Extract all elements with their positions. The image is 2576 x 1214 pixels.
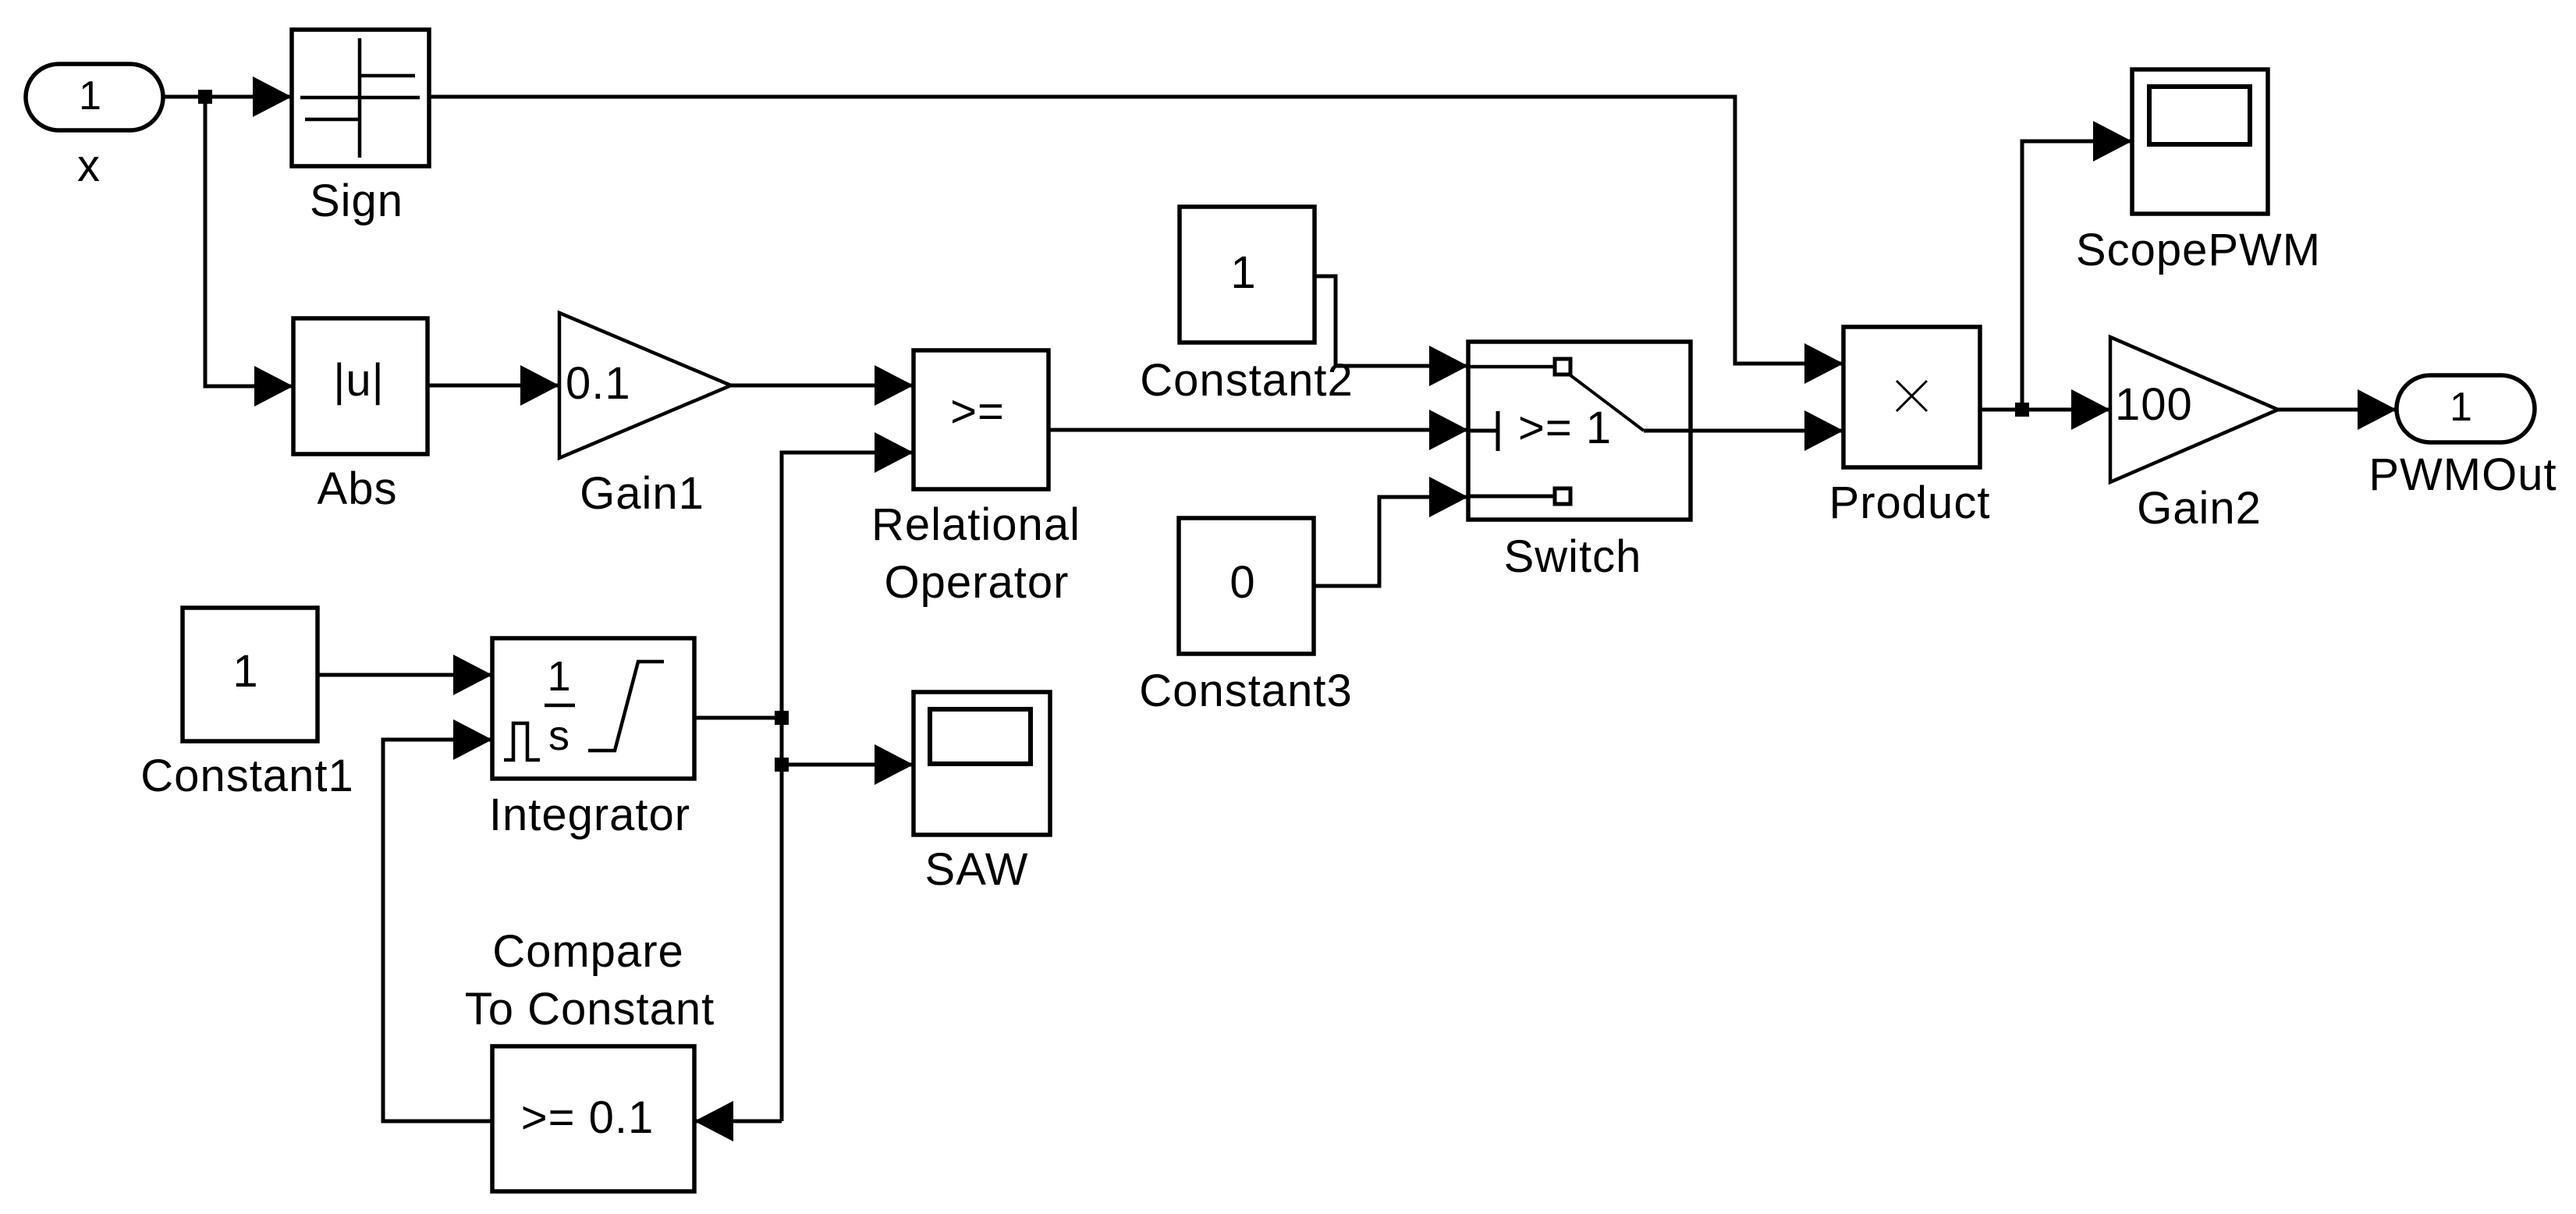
- svg-text:Abs: Abs: [318, 463, 398, 514]
- svg-text:PWMOut: PWMOut: [2368, 449, 2556, 500]
- svg-text:s: s: [548, 712, 570, 759]
- svg-text:Compare: Compare: [492, 926, 684, 977]
- svg-text:1: 1: [2450, 385, 2473, 430]
- svg-text:0.1: 0.1: [566, 358, 631, 409]
- svg-text:Gain2: Gain2: [2137, 483, 2262, 534]
- svg-text:Switch: Switch: [1504, 531, 1642, 582]
- svg-text:1: 1: [547, 653, 571, 700]
- svg-text:x: x: [77, 140, 101, 191]
- svg-text:Sign: Sign: [310, 176, 403, 226]
- svg-text:Constant1: Constant1: [140, 751, 353, 801]
- svg-text:|u|: |u|: [333, 355, 384, 406]
- svg-text:>= 1: >= 1: [1518, 403, 1612, 453]
- svg-text:>=: >=: [950, 386, 1005, 437]
- svg-text:1: 1: [79, 73, 102, 119]
- svg-text:Gain1: Gain1: [580, 468, 704, 519]
- svg-text:Integrator: Integrator: [489, 790, 690, 840]
- svg-text:Product: Product: [1829, 477, 1991, 528]
- svg-text:To Constant: To Constant: [465, 984, 715, 1035]
- svg-text:1: 1: [232, 646, 258, 697]
- svg-text:0: 0: [1229, 557, 1255, 608]
- svg-text:>= 0.1: >= 0.1: [521, 1092, 654, 1143]
- svg-text:Relational: Relational: [871, 499, 1080, 550]
- svg-text:ScopePWM: ScopePWM: [2076, 225, 2321, 275]
- svg-text:SAW: SAW: [925, 844, 1029, 895]
- svg-text:100: 100: [2115, 379, 2193, 430]
- svg-text:Constant3: Constant3: [1139, 666, 1352, 716]
- svg-text:1: 1: [1230, 247, 1256, 298]
- svg-text:Operator: Operator: [885, 557, 1070, 608]
- svg-text:Constant2: Constant2: [1140, 355, 1353, 406]
